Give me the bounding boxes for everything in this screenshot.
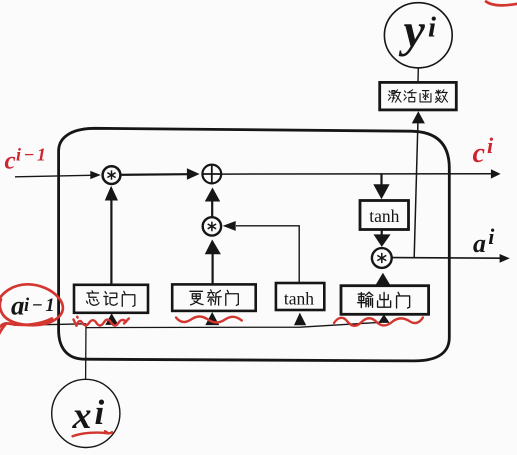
- svg-text:i−1: i−1: [16, 145, 48, 165]
- wire tanh(mid) elbow to multiply2: [236, 226, 299, 283]
- node y^i circle: [384, 3, 452, 68]
- svg-text:i−1: i−1: [24, 296, 57, 316]
- arrowhead up into multiply1: [105, 186, 118, 201]
- wire update gate to multiply2: [212, 254, 214, 285]
- arrowhead down into tanh right: [373, 184, 389, 199]
- arrowhead up from output gate into multiply3: [374, 273, 391, 287]
- wire x input vertical: [85, 324, 87, 380]
- arrowhead c output: [491, 169, 501, 178]
- wire multiply1 to add node: [122, 173, 189, 176]
- add node circle plus: [202, 165, 221, 184]
- update gate box 更新门: [172, 284, 256, 311]
- wire c output line: [222, 173, 492, 175]
- arrowhead into add node: [187, 168, 200, 179]
- red underline under x^i: [73, 431, 112, 436]
- red arc top right: [486, 2, 517, 6]
- wire c line down to tanh right: [380, 174, 382, 186]
- LSTM cell body rounded rectangle: [59, 128, 450, 361]
- red squiggle under update gate: [176, 317, 242, 323]
- wire tap from a line up to activation box: [414, 123, 418, 257]
- wire c(i-1) input line: [15, 175, 91, 177]
- wire forget gate to multiply1: [110, 200, 112, 285]
- multiply node (forget) circle with asterisk: [103, 166, 121, 184]
- svg-text:i: i: [487, 133, 494, 158]
- wire activation box to y node: [417, 68, 419, 82]
- arrowhead update gate to multiply2: [205, 240, 221, 255]
- svg-text:x: x: [72, 395, 92, 437]
- wire multiply2 to add node: [211, 201, 213, 218]
- tanh box middle: [276, 283, 324, 310]
- svg-text:tanh: tanh: [369, 206, 399, 226]
- arrowhead bus into update gate: [205, 312, 219, 325]
- svg-text:i: i: [95, 393, 105, 432]
- arrowhead bus into forget gate: [105, 313, 118, 325]
- forget gate box 忘记门: [74, 285, 148, 313]
- red squiggle under forget gate: [74, 317, 129, 326]
- tanh box right: [360, 201, 409, 230]
- label c^i red: [473, 133, 495, 169]
- arrowhead bus into tanh mid: [294, 313, 306, 326]
- svg-text:a: a: [11, 291, 25, 321]
- red oval around a^{i-1}: [0, 284, 63, 338]
- multiply node 2 circle asterisk: [203, 217, 221, 235]
- wire a(i-1) bus line: [14, 322, 381, 327]
- svg-text:a: a: [473, 229, 486, 258]
- svg-text:y: y: [399, 5, 426, 58]
- svg-text:c: c: [5, 148, 16, 175]
- multiply node 3 circle asterisk: [372, 248, 392, 268]
- arrowhead into multiply node 1: [90, 171, 101, 179]
- red squiggle under output gate: [334, 318, 423, 326]
- wire tanh right to multiply3: [381, 230, 383, 236]
- wire a output line: [392, 257, 501, 260]
- svg-text:c: c: [473, 138, 486, 169]
- label c^{i-1} red: [5, 145, 49, 175]
- arrowhead bus into output gate: [378, 314, 389, 323]
- svg-text:i: i: [428, 12, 436, 44]
- activation function box 激活函数: [380, 82, 457, 110]
- label a^{i-1} black: [11, 291, 57, 321]
- arrowhead multiply2 to add: [205, 188, 220, 202]
- label a^i black: [473, 224, 495, 258]
- arrowhead a output: [500, 254, 510, 263]
- svg-text:tanh: tanh: [284, 288, 314, 308]
- output gate box 输出门: [341, 286, 429, 315]
- arrowhead up into activation box: [412, 111, 425, 123]
- svg-text:i: i: [488, 224, 495, 249]
- arrowhead down into multiply3: [374, 234, 391, 247]
- arrowhead left into multiply2: [223, 221, 236, 231]
- node x^i circle: [52, 379, 120, 447]
